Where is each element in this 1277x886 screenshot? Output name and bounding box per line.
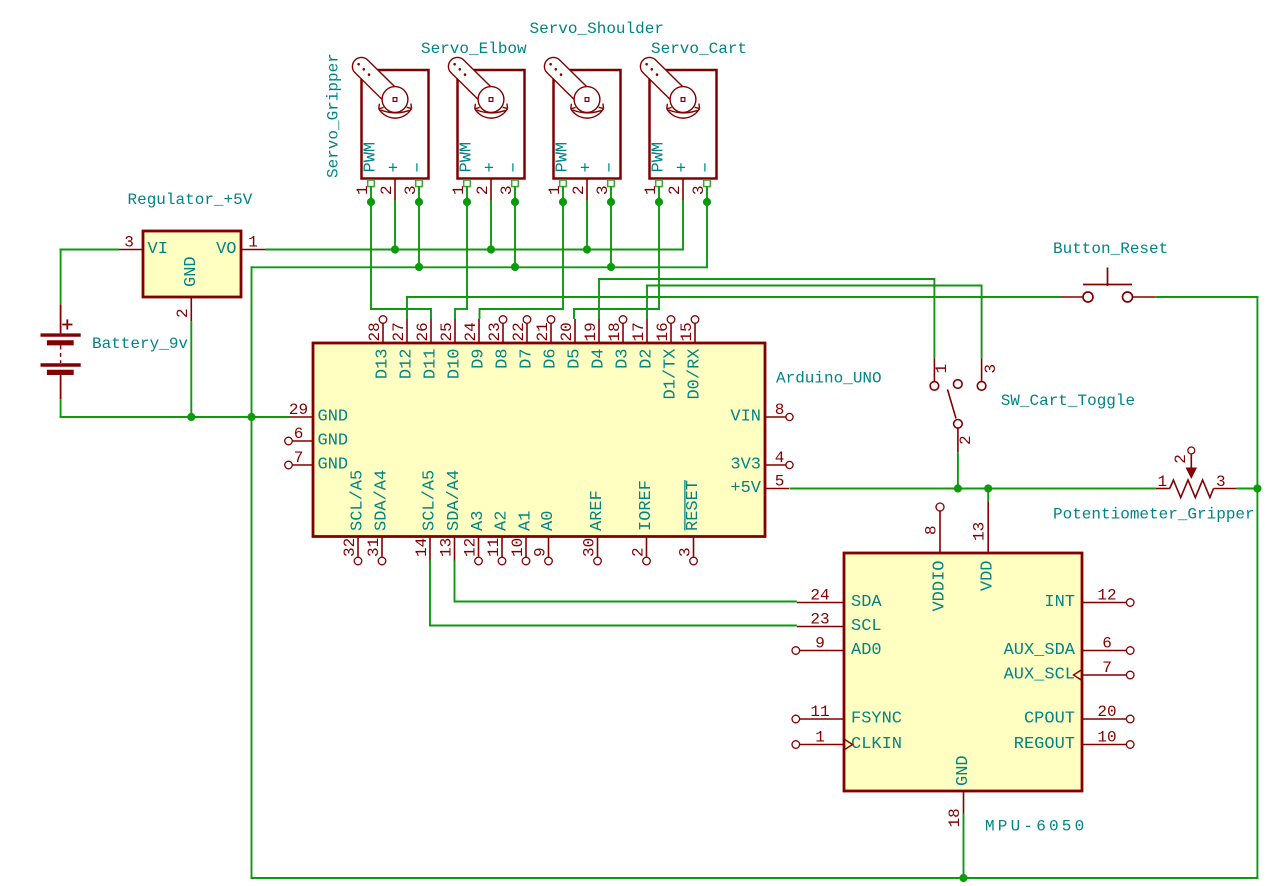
svg-text:Regulator_+5V: Regulator_+5V [128, 191, 253, 209]
svg-text:11: 11 [810, 703, 829, 721]
svg-text:3: 3 [1216, 473, 1226, 491]
svg-text:9: 9 [531, 547, 549, 557]
svg-text:PWM: PWM [458, 142, 477, 173]
junction [463, 198, 471, 206]
svg-text:CPOUT: CPOUT [1024, 710, 1075, 729]
servo Servo_Shoulder pin 1 PWM [562, 179, 564, 188]
svg-text:13: 13 [437, 538, 455, 557]
svg-text:A0: A0 [539, 511, 558, 531]
svg-text:20: 20 [558, 322, 576, 341]
svg-text:D12: D12 [398, 349, 417, 380]
Arduino pin 31 SDA/A4 [381, 537, 383, 557]
svg-text:+: + [578, 162, 597, 172]
junction [607, 263, 615, 271]
svg-text:Servo_Cart: Servo_Cart [651, 40, 747, 58]
svg-text:PWM: PWM [650, 142, 669, 173]
wire GND rail under servos [252, 266, 708, 268]
svg-text:GND: GND [318, 408, 349, 427]
svg-text:VO: VO [216, 240, 236, 259]
junction [655, 198, 663, 206]
wire GND bottom rail [251, 877, 1259, 879]
servo Servo_Gripper pin 2 + [394, 179, 396, 201]
servo Servo_Elbow horn dots [453, 63, 456, 66]
svg-text:3: 3 [594, 185, 612, 195]
svg-text:Servo_Elbow: Servo_Elbow [421, 40, 527, 58]
svg-text:32: 32 [341, 538, 359, 557]
svg-text:29: 29 [289, 401, 308, 419]
svg-text:D1/TX: D1/TX [662, 349, 681, 400]
svg-text:GND: GND [318, 432, 349, 451]
svg-text:2: 2 [474, 185, 492, 195]
junction [607, 198, 615, 206]
svg-text:Battery_9v: Battery_9v [92, 335, 188, 353]
svg-text:9: 9 [815, 635, 825, 653]
svg-text:4: 4 [775, 449, 785, 467]
wire battery plus to regulator VI [60, 249, 119, 251]
MPU-6050 pin 12 INT right [1082, 602, 1126, 604]
svg-text:FSYNC: FSYNC [851, 710, 902, 729]
wire servo3 PWM to D9 [480, 308, 564, 310]
svg-text:2: 2 [957, 435, 975, 445]
servo Servo_Shoulder horn dots [549, 63, 552, 66]
junction [415, 198, 423, 206]
junction [367, 198, 375, 206]
battery plus sign [62, 324, 72, 326]
wire servo - drop [514, 186, 516, 268]
wire servo1 PWM to D11 [370, 308, 431, 310]
svg-text:PWM: PWM [554, 142, 573, 173]
svg-text:3: 3 [676, 547, 694, 557]
wire servo4 PWM to D5 [574, 308, 660, 310]
svg-text:A1: A1 [517, 511, 536, 531]
servo Servo_Elbow rotation arrows [476, 110, 505, 113]
svg-text:−: − [698, 162, 717, 172]
junction [703, 198, 711, 206]
svg-text:CLKIN: CLKIN [851, 735, 902, 754]
ic MPU-6050 body [844, 553, 1082, 791]
wire potentiometer pin3 to corner [1237, 488, 1258, 490]
servo Servo_Cart pin 2 + [682, 179, 684, 201]
wire Arduino SCL to MPU SCL [429, 561, 431, 627]
servo Servo_Gripper horn arm [352, 57, 401, 105]
wire Arduino SDA to MPU SDA [454, 561, 456, 603]
MPU-6050 pin 8 VDDIO top [939, 511, 941, 553]
servo Servo_Cart horn dots [645, 63, 648, 66]
svg-text:1: 1 [933, 364, 951, 374]
svg-text:1: 1 [815, 729, 825, 747]
potentiometer Potentiometer_Gripper [1156, 488, 1170, 490]
svg-text:28: 28 [366, 322, 384, 341]
svg-text:7: 7 [294, 449, 304, 467]
servo Servo_Elbow horn arm [448, 57, 497, 105]
svg-text:D6: D6 [542, 349, 561, 369]
svg-text:19: 19 [582, 322, 600, 341]
svg-text:D5: D5 [566, 349, 585, 369]
junction [1253, 484, 1261, 492]
svg-text:12: 12 [1097, 587, 1116, 605]
MPU-6050 pin 20 CPOUT right [1082, 718, 1126, 720]
svg-text:REGOUT: REGOUT [1014, 735, 1075, 754]
svg-text:SDA/A4: SDA/A4 [445, 470, 464, 531]
svg-text:Potentiometer_Gripper: Potentiometer_Gripper [1053, 506, 1255, 524]
switch SW_Cart_Toggle pin 1 stub [933, 358, 935, 381]
svg-text:26: 26 [414, 322, 432, 341]
wire button to +5V net corner [1155, 296, 1258, 298]
svg-text:1: 1 [1158, 473, 1168, 491]
svg-text:7: 7 [1102, 659, 1112, 677]
MPU-6050 pin 1 CLKIN left [800, 744, 844, 746]
wire servo PWM drop [658, 186, 660, 310]
Arduino pin 22 D7 [526, 323, 528, 343]
svg-text:1: 1 [546, 185, 564, 195]
svg-text:8: 8 [775, 401, 785, 419]
Arduino pin 30 AREF [597, 537, 599, 557]
svg-text:D13: D13 [374, 349, 393, 380]
svg-text:12: 12 [461, 538, 479, 557]
svg-text:15: 15 [678, 322, 696, 341]
wire servo + riser [586, 201, 588, 251]
wire +5V rail from regulator VO to servo + pins [265, 249, 683, 251]
svg-text:D4: D4 [590, 349, 609, 369]
servo Servo_Gripper pulley circle [382, 87, 408, 113]
Arduino pin 18 D3 [622, 323, 624, 343]
Arduino pin 32 SCL/A5 [357, 537, 359, 557]
Arduino pin 27 D12 [406, 319, 408, 343]
Arduino pin 28 D13 [382, 323, 384, 343]
wire MPU GND drop [963, 814, 965, 879]
Arduino pin 3 RESET [693, 537, 695, 557]
servo Servo_Shoulder rotation arrows [572, 110, 601, 113]
switch SW_Cart_Toggle pin 3 stub [981, 358, 983, 381]
svg-text:2: 2 [378, 185, 396, 195]
svg-text:VI: VI [148, 240, 168, 259]
junction [511, 198, 519, 206]
MPU-6050 pin 10 REGOUT right [1082, 744, 1126, 746]
MPU-6050 pin 7 AUX_SCL right [1082, 674, 1126, 676]
wire regulator GND drop [190, 321, 192, 417]
svg-text:SCL: SCL [851, 617, 882, 636]
svg-text:2: 2 [629, 547, 647, 557]
junction [187, 413, 195, 421]
wire servo + riser [394, 201, 396, 251]
Arduino pin 7 GND left [292, 464, 313, 466]
svg-text:A3: A3 [469, 511, 488, 531]
MPU-6050 pin 18 GND bottom [963, 791, 965, 814]
Arduino pin 23 D8 [502, 323, 504, 343]
MPU-6050 pin 6 AUX_SDA right [1082, 650, 1126, 652]
wire GND right vertical [1256, 296, 1258, 879]
servo motor Servo_Gripper body [362, 70, 429, 179]
svg-text:IOREF: IOREF [637, 480, 656, 531]
svg-text:+: + [482, 162, 501, 172]
svg-text:GND: GND [954, 755, 973, 786]
wire D12 to Button_Reset [406, 297, 408, 319]
svg-text:14: 14 [413, 538, 431, 557]
servo Servo_Shoulder pin 2 + [586, 179, 588, 201]
Arduino pin 20 D5 [574, 319, 576, 343]
Arduino pin 17 D2 [646, 319, 648, 343]
svg-text:Servo_Gripper: Servo_Gripper [325, 53, 343, 178]
svg-text:3V3: 3V3 [730, 456, 761, 475]
svg-text:SCL/A5: SCL/A5 [349, 470, 368, 531]
svg-text:SDA: SDA [851, 593, 882, 612]
regulator pin 2 GND [190, 297, 192, 321]
Arduino pin 8 VIN right [765, 416, 786, 418]
wire servo PWM drop [466, 186, 468, 310]
svg-text:Servo_Shoulder: Servo_Shoulder [530, 20, 664, 38]
Arduino pin 10 A1 [525, 537, 527, 557]
Arduino pin 26 D11 [430, 319, 432, 343]
svg-text:16: 16 [654, 322, 672, 341]
svg-text:AREF: AREF [588, 490, 607, 531]
svg-text:3: 3 [498, 185, 516, 195]
svg-text:D8: D8 [494, 349, 513, 369]
servo Servo_Cart pin 3 - [706, 179, 708, 188]
svg-text:−: − [506, 162, 525, 172]
wire servo - drop [418, 186, 420, 268]
svg-text:2: 2 [174, 308, 192, 318]
wire servo - drop [706, 186, 708, 268]
svg-text:SDA/A4: SDA/A4 [373, 470, 392, 531]
svg-text:3: 3 [124, 234, 134, 252]
svg-text:D2: D2 [638, 349, 657, 369]
junction [954, 484, 962, 492]
servo motor Servo_Cart body [650, 70, 717, 179]
potentiometer wiper arrow pin 2 [1190, 455, 1192, 469]
svg-text:1: 1 [354, 185, 372, 195]
svg-text:18: 18 [606, 322, 624, 341]
svg-text:1: 1 [248, 234, 258, 252]
Arduino pin 19 D4 [598, 319, 600, 343]
MPU-6050 pin 9 AD0 left [800, 650, 844, 652]
svg-text:+: + [674, 162, 693, 172]
svg-text:MPU-6050: MPU-6050 [985, 818, 1087, 836]
svg-text:VDDIO: VDDIO [931, 561, 950, 612]
junction [391, 245, 399, 253]
servo Servo_Cart horn arm [640, 57, 689, 105]
svg-text:VIN: VIN [730, 408, 761, 427]
switch SW_Cart_Toggle pin 2 stub [957, 428, 959, 452]
svg-text:8: 8 [923, 525, 941, 535]
battery Battery_9v [60, 304, 62, 333]
svg-text:D7: D7 [518, 349, 537, 369]
svg-text:1: 1 [642, 185, 660, 195]
servo Servo_Elbow pulley circle [478, 87, 504, 113]
Arduino pin 16 D1/TX [670, 323, 672, 343]
ic Arduino_UNO body [313, 343, 765, 537]
wire servo4 + riser [682, 201, 684, 251]
svg-text:3: 3 [402, 185, 420, 195]
svg-text:GND: GND [182, 256, 201, 287]
svg-text:23: 23 [486, 322, 504, 341]
svg-text:RESET: RESET [684, 480, 703, 531]
servo Servo_Shoulder pulley circle [574, 87, 600, 113]
Arduino pin 25 D10 [454, 319, 456, 343]
junction [583, 245, 591, 253]
servo Servo_Cart pin 1 PWM [658, 179, 660, 188]
wire servo PWM drop [370, 186, 372, 310]
svg-text:SW_Cart_Toggle: SW_Cart_Toggle [1001, 392, 1135, 410]
servo Servo_Gripper pin 3 - [418, 179, 420, 188]
svg-text:24: 24 [462, 322, 480, 341]
junction [511, 263, 519, 271]
junction [959, 874, 967, 882]
Arduino pin 9 A0 [548, 537, 550, 557]
Arduino pin 29 GND left [289, 416, 313, 418]
servo Servo_Elbow pin 3 - [514, 179, 516, 188]
servo Servo_Cart pulley circle [670, 87, 696, 113]
Arduino pin 12 A3 [478, 537, 480, 557]
wire GND left vertical [251, 266, 253, 879]
svg-text:3: 3 [690, 185, 708, 195]
servo motor Servo_Shoulder body [554, 70, 621, 179]
wire MPU VDD riser [987, 489, 989, 503]
svg-text:A2: A2 [493, 511, 512, 531]
servo Servo_Gripper pin connection squares [368, 180, 375, 187]
junction [487, 245, 495, 253]
svg-text:30: 30 [580, 538, 598, 557]
regulator pin 3 VI [119, 249, 143, 251]
MPU-6050 pin 11 FSYNC left [800, 718, 844, 720]
svg-text:24: 24 [810, 587, 829, 605]
Arduino pin 4 3V3 right [765, 464, 786, 466]
svg-text:6: 6 [294, 425, 304, 443]
svg-text:10: 10 [1097, 729, 1116, 747]
svg-text:Button_Reset: Button_Reset [1053, 240, 1168, 258]
svg-text:D0/RX: D0/RX [686, 349, 705, 400]
svg-text:+: + [386, 162, 405, 172]
servo Servo_Elbow pin connection squares [464, 180, 471, 187]
svg-text:AD0: AD0 [851, 641, 882, 660]
svg-text:+5V: +5V [730, 479, 761, 498]
svg-text:INT: INT [1044, 593, 1075, 612]
servo motor Servo_Elbow body [458, 70, 525, 179]
svg-text:2: 2 [1172, 454, 1190, 464]
svg-text:D9: D9 [470, 349, 489, 369]
Arduino pin 13 SDA/A4 [454, 537, 456, 561]
svg-text:20: 20 [1097, 703, 1116, 721]
svg-text:31: 31 [365, 538, 383, 557]
Arduino pin 21 D6 [550, 323, 552, 343]
Arduino pin 5 +5V right [765, 488, 789, 490]
MPU-6050 pin 13 VDD top [987, 502, 989, 553]
Arduino pin 11 A2 [501, 537, 503, 557]
svg-text:21: 21 [534, 322, 552, 341]
switch SW_Cart_Toggle [930, 382, 939, 391]
svg-text:VDD: VDD [979, 561, 998, 592]
wire servo2 PWM to D10 [455, 308, 468, 310]
svg-text:2: 2 [570, 185, 588, 195]
svg-text:GND: GND [318, 456, 349, 475]
svg-text:25: 25 [438, 322, 456, 341]
wire D4 to switch pin 1 [598, 279, 600, 319]
servo Servo_Gripper pin 1 PWM [370, 179, 372, 188]
MPU-6050 pin 24 SDA left [797, 602, 844, 604]
svg-text:5: 5 [775, 473, 785, 491]
svg-text:AUX_SCL: AUX_SCL [1004, 666, 1075, 685]
svg-text:−: − [602, 162, 621, 172]
svg-text:17: 17 [630, 322, 648, 341]
servo Servo_Cart rotation arrows [668, 110, 697, 113]
junction [247, 413, 255, 421]
svg-text:D3: D3 [614, 349, 633, 369]
svg-text:18: 18 [946, 808, 964, 827]
servo Servo_Elbow pin 1 PWM [466, 179, 468, 188]
svg-text:1: 1 [450, 185, 468, 195]
Arduino pin 6 GND left [292, 440, 313, 442]
servo Servo_Gripper horn dots [357, 63, 360, 66]
wire servo - drop [610, 186, 612, 268]
regulator pin 1 VO [241, 249, 265, 251]
wire servo + riser [490, 201, 492, 251]
svg-text:PWM: PWM [362, 142, 381, 173]
junction [984, 484, 992, 492]
junction [415, 263, 423, 271]
Arduino pin 24 D9 [478, 319, 480, 343]
svg-text:SCL/A5: SCL/A5 [421, 470, 440, 531]
svg-text:−: − [410, 162, 429, 172]
pushbutton Button_Reset [1083, 284, 1132, 286]
svg-text:23: 23 [810, 611, 829, 629]
wire servo PWM drop [562, 186, 564, 310]
regulator Regulator_+5V body [143, 231, 241, 297]
svg-text:D11: D11 [422, 349, 441, 380]
svg-text:11: 11 [485, 538, 503, 557]
servo Servo_Shoulder pin 3 - [610, 179, 612, 188]
Arduino pin 15 D0/RX [694, 323, 696, 343]
servo Servo_Elbow pin 2 + [490, 179, 492, 201]
Arduino pin 2 IOREF [646, 537, 648, 557]
svg-text:13: 13 [971, 522, 989, 541]
wire D2 to switch pin 3 [646, 286, 648, 320]
servo Servo_Cart pin connection squares [656, 180, 663, 187]
Arduino pin 14 SCL/A5 [429, 537, 431, 561]
servo Servo_Shoulder horn arm [544, 57, 593, 105]
svg-text:22: 22 [510, 322, 528, 341]
junction [559, 198, 567, 206]
svg-text:D10: D10 [446, 349, 465, 380]
wire switch pin 2 drop [957, 452, 959, 488]
svg-text:AUX_SDA: AUX_SDA [1004, 641, 1076, 660]
svg-text:2: 2 [666, 185, 684, 195]
wire +5V rail right of Arduino [790, 488, 1156, 490]
svg-text:6: 6 [1102, 635, 1112, 653]
svg-text:Arduino_UNO: Arduino_UNO [776, 370, 882, 388]
servo Servo_Shoulder pin connection squares [560, 180, 567, 187]
svg-text:27: 27 [390, 322, 408, 341]
servo Servo_Gripper rotation arrows [380, 110, 409, 113]
wire battery minus to GND rail [60, 399, 62, 418]
svg-text:10: 10 [509, 538, 527, 557]
svg-text:3: 3 [982, 364, 1000, 374]
MPU-6050 pin 23 SCL left [797, 626, 844, 628]
